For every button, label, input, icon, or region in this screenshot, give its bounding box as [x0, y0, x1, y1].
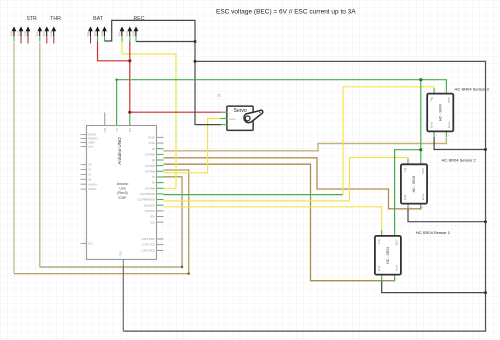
wire: Arduino GND down to bottom rail: [122, 266, 124, 332]
svg-text:JE: JE: [217, 94, 221, 98]
sensor3 pin legs: [433, 88, 435, 93]
svg-text:VCC: VCC: [93, 31, 97, 37]
svg-text:ICSP: ICSP: [119, 196, 128, 200]
Arduino ICSP pins: [157, 238, 164, 240]
wire: REC- (black) to ground bus: [136, 41, 195, 43]
svg-text:VIN: VIN: [129, 128, 132, 132]
svg-text:Gnd: Gnd: [429, 122, 433, 128]
svg-text:RX/D0: RX/D0: [148, 137, 156, 140]
node: ground junction bus branch: [194, 60, 197, 63]
svg-text:GND: GND: [49, 31, 53, 37]
wire: THR signal (tan) to Arduino D8: [39, 43, 41, 268]
svg-text:Servo: Servo: [234, 108, 247, 114]
svg-text:D9 PWM: D9 PWM: [145, 187, 155, 190]
svg-text:5V: 5V: [116, 128, 119, 131]
node: gnd junction sensor2: [484, 220, 487, 223]
wire: Arduino 5V (green) rail to sensors VCC: [117, 80, 447, 126]
svg-text:(Rev3): (Rev3): [117, 191, 127, 195]
Arduino right pins D0..SCL and labels: [157, 136, 164, 138]
sensor U3 HC-SR04 Sensor 2: [401, 157, 477, 209]
wire: sensor1 GND (black): [382, 281, 486, 293]
wire: 5V green vertical branch to sensor2 VCC: [420, 80, 422, 159]
svg-text:Echo: Echo: [447, 121, 451, 128]
svg-text:HC - SR04: HC - SR04: [438, 104, 442, 121]
svg-text:D5 PWM: D5 PWM: [145, 165, 155, 168]
svg-text:VCC: VCC: [125, 31, 129, 37]
sensor1 pin legs: [381, 231, 383, 236]
svg-text:ESC voltage (BEC) = 6V // ESC: ESC voltage (BEC) = 6V // ESC current up…: [216, 9, 356, 16]
svg-text:THR: THR: [50, 16, 61, 22]
svg-text:ICSP2 MISO: ICSP2 MISO: [141, 238, 155, 241]
svg-text:HC-SR04 Sensor 1: HC-SR04 Sensor 1: [416, 230, 451, 235]
svg-text:Gnd: Gnd: [377, 265, 381, 271]
wire: sensor3 GND (black): [434, 137, 485, 150]
svg-text:pulse: pulse: [229, 117, 236, 121]
node: 5V corner at Arduino: [115, 79, 117, 81]
wire: sensor2 echo (tan) to Arduino: [164, 158, 421, 209]
svg-text:GND: GND: [100, 31, 104, 37]
svg-text:HC - SR04: HC - SR04: [386, 247, 390, 264]
Arduino left pins RESET..A5 and labels: [81, 134, 87, 136]
svg-text:GND: GND: [120, 251, 123, 257]
svg-text:ioref: ioref: [88, 146, 93, 149]
svg-text:D12/MISO: D12/MISO: [144, 204, 155, 207]
svg-text:HC-SR04 Sensor 2: HC-SR04 Sensor 2: [442, 157, 477, 162]
sensor2 pin legs: [407, 159, 409, 164]
svg-text:Echo: Echo: [395, 264, 399, 271]
svg-text:Gnd: Gnd: [403, 194, 407, 200]
sensor U4 HC-SR04 Sensor 1: [375, 230, 451, 280]
svg-text:Arduino UNO: Arduino UNO: [117, 137, 122, 165]
svg-text:SIG: SIG: [86, 32, 90, 36]
wire: sensor2 GND (black): [408, 209, 486, 222]
pin GND leg (bottom): [122, 259, 124, 265]
svg-text:D3 PWM: D3 PWM: [145, 153, 155, 156]
svg-text:VCC: VCC: [447, 97, 451, 103]
pin VIN leg (top): [129, 110, 131, 126]
svg-text:Uno: Uno: [119, 187, 125, 191]
node: gnd junction sensor1: [484, 291, 487, 294]
wire: sensor1 trig (yellow): [164, 207, 382, 231]
svg-text:SIG: SIG: [35, 32, 39, 36]
svg-text:D10 PWM/SS: D10 PWM/SS: [140, 193, 155, 196]
connector J1 STR: [9, 16, 37, 44]
svg-text:SDA: SDA: [150, 216, 155, 219]
node: gnd junction sensor3: [484, 148, 487, 151]
servo horn icon: [244, 110, 263, 122]
wire: BAT+ (red) to 6V node: [98, 42, 130, 61]
servo pins +/pulse/- legs: [221, 111, 228, 113]
svg-text:HC-SR04 Sensor 3: HC-SR04 Sensor 3: [455, 87, 490, 92]
svg-text:BAT: BAT: [93, 16, 104, 22]
svg-text:D13/SCK: D13/SCK: [145, 210, 155, 213]
node: 6V junction BAT/REC: [128, 59, 131, 62]
svg-text:Echo: Echo: [421, 193, 425, 200]
wire: 5V green branch to sensor1 VCC: [395, 150, 421, 231]
svg-text:Arduino: Arduino: [117, 182, 129, 186]
svg-text:VCC: VCC: [395, 239, 399, 245]
svg-text:VCC: VCC: [42, 31, 46, 37]
servo M1: [217, 94, 263, 131]
svg-text:Trig: Trig: [377, 239, 381, 244]
servo body: [227, 106, 253, 130]
node: ground junction REC: [194, 40, 197, 43]
svg-text:A5/SCL: A5/SCL: [88, 188, 97, 191]
wire: REC throttle signal (yellow) to Arduino: [122, 42, 176, 189]
svg-text:RESET: RESET: [88, 134, 97, 137]
sensor U2 HC-SR04 Sensor 3: [427, 87, 489, 138]
op-amp U1 Arduino Uno: [81, 110, 164, 266]
wire: 6V (red) to servo +: [130, 111, 221, 113]
svg-text:-: -: [229, 123, 230, 127]
wire: sensor1 echo (tan) to Arduino: [164, 164, 395, 281]
wire: ground bus top rail to right side: [123, 61, 485, 331]
svg-text:ICSP2 MOSI: ICSP2 MOSI: [141, 250, 155, 253]
wire: REC BEC 6V (red) down to VIN node: [129, 42, 131, 111]
svg-text:D11 PWM/MOSI: D11 PWM/MOSI: [138, 199, 156, 202]
wire: sensor3 trig green segment from Arduino: [164, 194, 344, 196]
pin 3V3 (top, n/c): [104, 113, 106, 126]
wire: sensor3 echo (tan) to Arduino: [164, 138, 447, 151]
wire: BAT- (black) up over to ground bus: [105, 20, 222, 124]
svg-text:A4/SDA: A4/SDA: [88, 183, 97, 186]
svg-text:TX/D1: TX/D1: [148, 142, 155, 145]
connector J2 THR: [35, 16, 61, 44]
svg-text:SCL: SCL: [150, 221, 155, 224]
sensor2 body: [401, 164, 427, 203]
svg-text:N/C: N/C: [88, 243, 92, 246]
node: tan bendpoint THR: [181, 266, 183, 268]
connector J4 REC: [117, 16, 144, 42]
svg-text:3V3: 3V3: [104, 127, 107, 132]
svg-text:RESET2: RESET2: [88, 138, 98, 141]
svg-text:VCC: VCC: [16, 31, 20, 37]
wire: sensor3 trig yellow segment: [343, 87, 434, 195]
svg-text:SIG: SIG: [9, 32, 13, 36]
svg-text:HC - SR04: HC - SR04: [412, 175, 416, 192]
svg-text:Trig: Trig: [403, 167, 407, 172]
svg-text:REC: REC: [134, 16, 145, 22]
sensor3 body: [427, 94, 453, 132]
svg-text:VCC: VCC: [421, 168, 425, 174]
wire: sensor2 trig (yellow): [164, 158, 409, 201]
svg-text:GND: GND: [131, 31, 135, 37]
svg-text:ICSP2 SCK: ICSP2 SCK: [143, 244, 156, 247]
svg-text:SIG: SIG: [117, 32, 121, 36]
svg-text:Trig: Trig: [429, 97, 433, 102]
node: tan bendpoint STR: [188, 272, 190, 274]
sensor1 body: [375, 236, 401, 275]
svg-text:AREF: AREF: [88, 142, 95, 145]
svg-text:GND: GND: [23, 31, 27, 37]
node: 6V junction at servo/VIN: [128, 111, 131, 114]
node: 5V junction top: [419, 78, 422, 81]
connector J3 BAT: [86, 16, 107, 44]
Arduino body outline: [87, 126, 157, 260]
svg-text:D6 PWM: D6 PWM: [145, 170, 155, 173]
wire: servo pulse (yellow) from Arduino D9: [164, 119, 222, 173]
svg-text:STR: STR: [26, 16, 37, 22]
wire: STR signal (tan) to Arduino D7: [13, 43, 15, 274]
node: 5V junction sensor2/1: [419, 148, 422, 151]
